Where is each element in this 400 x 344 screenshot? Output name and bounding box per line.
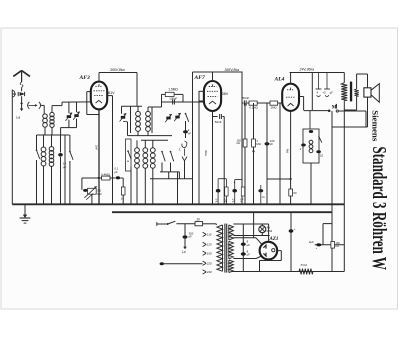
svg-text:μF: μF (247, 243, 251, 247)
svg-text:μF: μF (330, 90, 333, 94)
svg-text:2MΩ: 2MΩ (271, 106, 277, 110)
svg-text:μF: μF (114, 170, 118, 174)
svg-text:4μF: 4μF (309, 240, 314, 244)
svg-text:110: 110 (207, 233, 212, 237)
svg-text:1,5MΩ: 1,5MΩ (168, 88, 178, 92)
svg-text:AL4: AL4 (274, 77, 285, 83)
svg-text:+: + (233, 181, 235, 185)
svg-text:AF7: AF7 (194, 75, 205, 81)
svg-text:365V,8ka: 365V,8ka (225, 68, 240, 72)
svg-text:Standard 3 Röhren W: Standard 3 Röhren W (368, 146, 390, 270)
svg-text:125: 125 (207, 243, 212, 247)
svg-text:0,64: 0,64 (267, 229, 273, 233)
svg-text:Ju: Ju (262, 195, 265, 199)
svg-text:AZ1: AZ1 (269, 237, 279, 242)
svg-text:240: 240 (206, 270, 212, 274)
svg-text:MΩ: MΩ (256, 142, 260, 146)
svg-text:50: 50 (293, 191, 297, 195)
svg-text:Si: Si (196, 218, 199, 222)
svg-text:μF: μF (247, 253, 251, 257)
svg-text:kΩ: kΩ (335, 244, 338, 248)
svg-text:150: 150 (207, 251, 212, 255)
svg-text:kΩ: kΩ (237, 141, 240, 145)
svg-text:2nF: 2nF (94, 145, 98, 150)
svg-text:La: La (182, 250, 186, 254)
svg-text:MΩ: MΩ (97, 192, 101, 196)
svg-text:pF: pF (270, 142, 274, 146)
svg-text:220: 220 (206, 261, 212, 265)
svg-text:nF: nF (188, 131, 192, 135)
svg-text:100pF: 100pF (169, 96, 177, 100)
svg-text:Ukw·: Ukw· (204, 150, 208, 157)
svg-text:La: La (16, 116, 20, 120)
svg-text:50nF: 50nF (243, 96, 250, 100)
svg-text:+: + (294, 227, 296, 231)
svg-text:38V: 38V (222, 92, 229, 96)
svg-text:MΩ: MΩ (224, 201, 228, 203)
svg-text:Siemens: Siemens (371, 110, 381, 142)
svg-text:24V,36ka: 24V,36ka (299, 68, 315, 72)
svg-text:AF3: AF3 (79, 75, 90, 81)
svg-text:15: 15 (320, 154, 324, 158)
svg-text:pF: pF (189, 235, 193, 239)
svg-text:Feld: Feld (300, 263, 308, 267)
svg-text:+2: +2 (322, 90, 326, 94)
svg-text:61V: 61V (108, 91, 115, 95)
svg-text:50nF: 50nF (215, 120, 222, 124)
svg-text:365V,8ka: 365V,8ka (110, 68, 125, 72)
svg-text:Md: Md (285, 149, 289, 153)
